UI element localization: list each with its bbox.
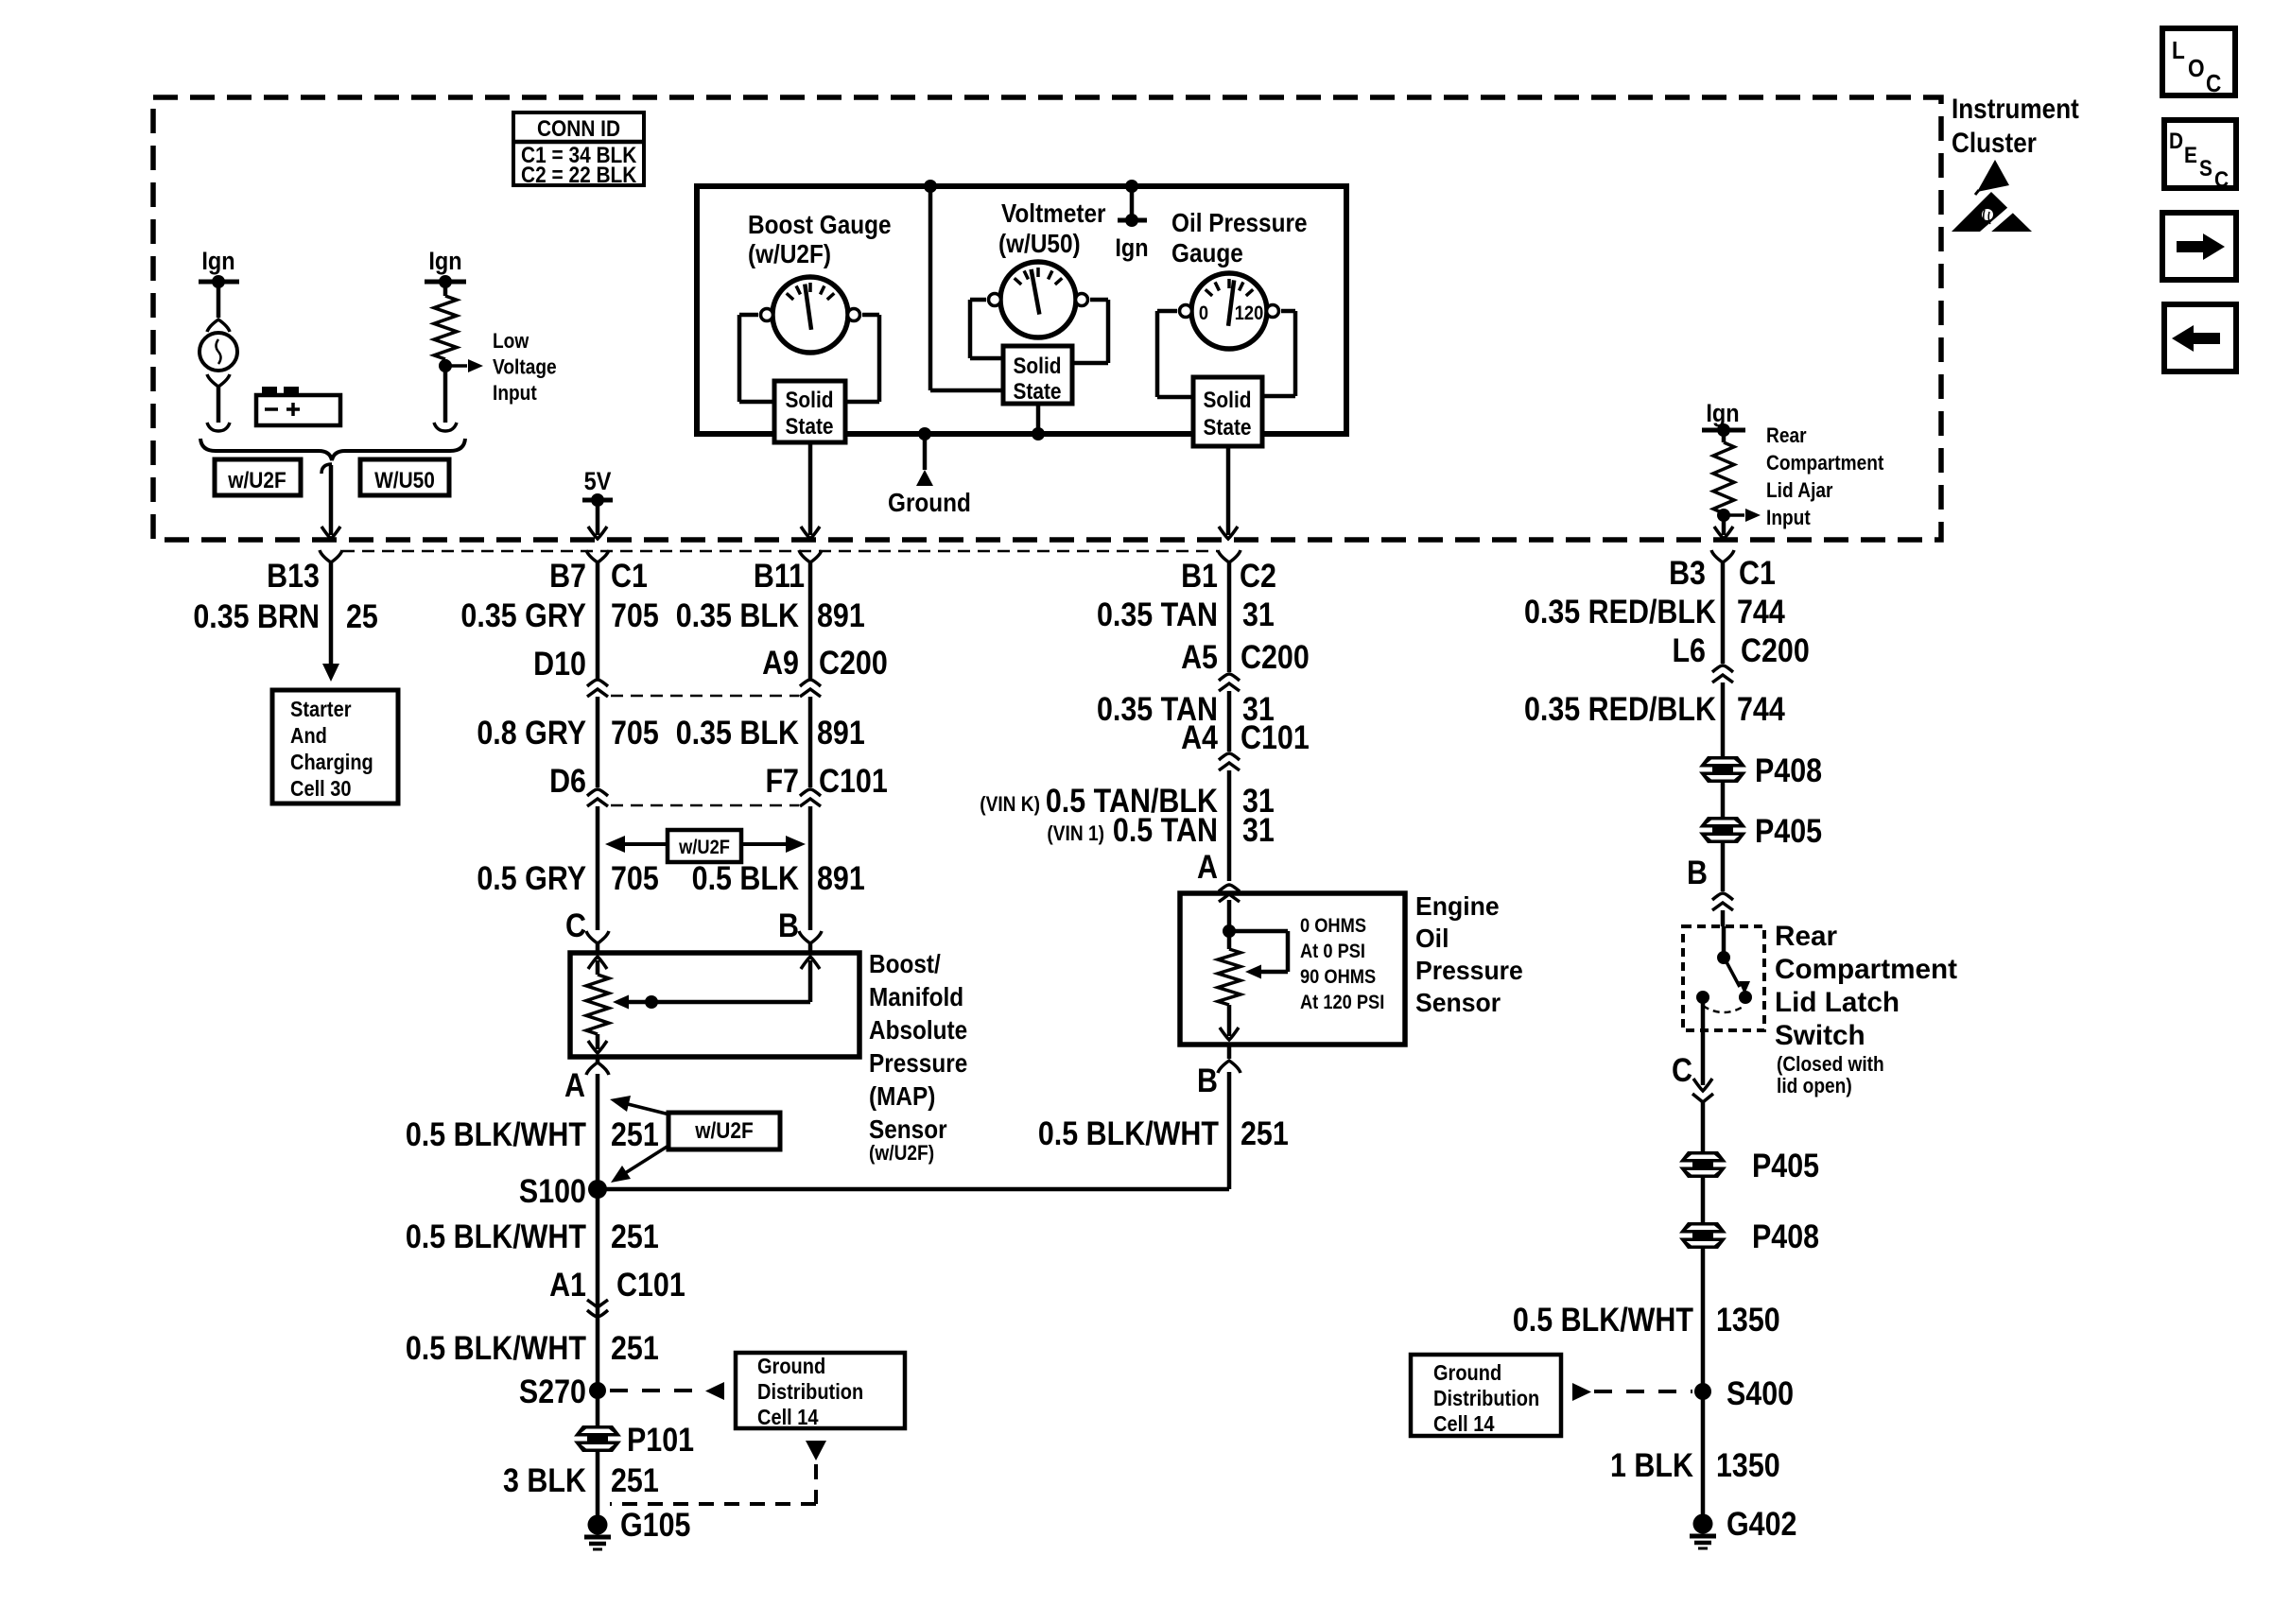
svg-text:3 BLK: 3 BLK bbox=[503, 1461, 586, 1498]
svg-text:Solid: Solid bbox=[1013, 354, 1061, 379]
svg-text:S270: S270 bbox=[519, 1373, 586, 1409]
svg-text:705: 705 bbox=[611, 714, 659, 751]
svg-text:C2 = 22 BLK: C2 = 22 BLK bbox=[521, 163, 637, 188]
svg-text:B13: B13 bbox=[267, 557, 320, 594]
svg-text:0.35 TAN: 0.35 TAN bbox=[1097, 596, 1218, 632]
svg-text:B7: B7 bbox=[549, 557, 586, 594]
svg-text:L: L bbox=[2172, 38, 2185, 65]
svg-text:Engine: Engine bbox=[1415, 890, 1500, 921]
svg-text:705: 705 bbox=[611, 596, 659, 633]
svg-text:Distribution: Distribution bbox=[1433, 1386, 1539, 1411]
svg-text:744: 744 bbox=[1737, 690, 1785, 727]
svg-text:B: B bbox=[1687, 854, 1708, 890]
svg-text:Cell 14: Cell 14 bbox=[1433, 1411, 1495, 1437]
svg-text:P101: P101 bbox=[627, 1421, 694, 1458]
svg-text:A: A bbox=[564, 1066, 585, 1103]
svg-text:Oil: Oil bbox=[1415, 923, 1449, 953]
svg-text:Compartment: Compartment bbox=[1766, 452, 1883, 475]
svg-text:(w/U2F): (w/U2F) bbox=[869, 1142, 934, 1166]
svg-text:Ign: Ign bbox=[1115, 234, 1148, 263]
svg-text:0: 0 bbox=[1199, 302, 1208, 324]
svg-text:0.35 RED/BLK: 0.35 RED/BLK bbox=[1524, 593, 1716, 630]
svg-text:C101: C101 bbox=[616, 1266, 685, 1303]
svg-text:lid open): lid open) bbox=[1777, 1075, 1852, 1098]
svg-text:Gauge: Gauge bbox=[1171, 237, 1243, 268]
svg-text:0.5 BLK/WHT: 0.5 BLK/WHT bbox=[1513, 1301, 1693, 1338]
svg-text:Ground: Ground bbox=[1433, 1360, 1501, 1386]
svg-text:705: 705 bbox=[611, 859, 659, 896]
svg-text:B: B bbox=[1197, 1062, 1218, 1098]
svg-text:5V: 5V bbox=[584, 468, 612, 496]
svg-text:S100: S100 bbox=[519, 1172, 586, 1209]
svg-text:0 OHMS: 0 OHMS bbox=[1300, 915, 1366, 937]
svg-text:C200: C200 bbox=[1741, 631, 1810, 668]
svg-text:C2: C2 bbox=[1240, 557, 1276, 594]
svg-text:Starter: Starter bbox=[290, 697, 352, 722]
svg-text:(w/U2F): (w/U2F) bbox=[748, 238, 831, 268]
svg-text:w/U2F: w/U2F bbox=[678, 837, 730, 858]
svg-text:0.5 BLK/WHT: 0.5 BLK/WHT bbox=[1038, 1114, 1219, 1151]
svg-text:Solid: Solid bbox=[1203, 388, 1251, 413]
svg-text:(Closed with: (Closed with bbox=[1777, 1053, 1884, 1077]
svg-text:0.5 BLK/WHT: 0.5 BLK/WHT bbox=[406, 1218, 586, 1254]
svg-text:Ign: Ign bbox=[428, 248, 461, 276]
svg-text:Pressure: Pressure bbox=[1415, 955, 1523, 985]
svg-text:C: C bbox=[2206, 71, 2221, 98]
svg-text:Boost Gauge: Boost Gauge bbox=[748, 209, 892, 239]
svg-text:And: And bbox=[290, 723, 327, 749]
svg-text:0.8 GRY: 0.8 GRY bbox=[477, 714, 586, 751]
svg-text:Cell 30: Cell 30 bbox=[290, 776, 352, 802]
svg-text:CONN ID: CONN ID bbox=[537, 116, 620, 142]
svg-text:A: A bbox=[1197, 848, 1218, 885]
svg-text:Compartment: Compartment bbox=[1775, 954, 1957, 985]
svg-text:(MAP): (MAP) bbox=[869, 1080, 935, 1111]
svg-text:251: 251 bbox=[611, 1461, 659, 1498]
svg-text:Input: Input bbox=[1766, 507, 1811, 530]
svg-text:Cell 14: Cell 14 bbox=[757, 1405, 819, 1430]
svg-text:Pressure: Pressure bbox=[869, 1047, 967, 1078]
svg-text:B: B bbox=[778, 907, 799, 943]
svg-text:891: 891 bbox=[817, 596, 865, 633]
svg-text:A1: A1 bbox=[549, 1266, 586, 1303]
svg-text:Lid Ajar: Lid Ajar bbox=[1766, 479, 1833, 503]
svg-text:1350: 1350 bbox=[1716, 1301, 1780, 1338]
svg-text:120: 120 bbox=[1235, 302, 1264, 324]
svg-text:Solid: Solid bbox=[785, 388, 833, 413]
svg-text:State: State bbox=[785, 414, 833, 440]
svg-text:Voltage: Voltage bbox=[493, 355, 557, 379]
svg-text:0.35 BLK: 0.35 BLK bbox=[676, 714, 800, 751]
svg-text:Instrument: Instrument bbox=[1952, 93, 2079, 124]
svg-text:Sensor: Sensor bbox=[869, 1114, 947, 1144]
svg-text:C1: C1 bbox=[611, 557, 648, 594]
svg-text:891: 891 bbox=[817, 714, 865, 751]
svg-text:0.35 BRN: 0.35 BRN bbox=[193, 597, 320, 634]
svg-text:Distribution: Distribution bbox=[757, 1379, 863, 1405]
svg-text:P405: P405 bbox=[1755, 812, 1822, 849]
svg-text:(w/U50): (w/U50) bbox=[998, 228, 1081, 258]
svg-text:S: S bbox=[2199, 156, 2212, 181]
svg-text:C1: C1 bbox=[1739, 554, 1776, 591]
svg-text:w/U2F: w/U2F bbox=[694, 1118, 753, 1144]
svg-text:Ign: Ign bbox=[1706, 400, 1739, 428]
svg-text:At 0 PSI: At 0 PSI bbox=[1300, 941, 1365, 962]
svg-text:Ground: Ground bbox=[757, 1354, 825, 1379]
svg-text:C101: C101 bbox=[819, 762, 888, 799]
svg-text:31: 31 bbox=[1242, 596, 1275, 632]
svg-text:(VIN 1): (VIN 1) bbox=[1047, 822, 1104, 846]
svg-text:1350: 1350 bbox=[1716, 1446, 1780, 1483]
svg-text:Sensor: Sensor bbox=[1415, 987, 1501, 1017]
svg-text:C200: C200 bbox=[819, 644, 888, 681]
svg-text:A4: A4 bbox=[1181, 718, 1219, 755]
svg-text:0.5 BLK: 0.5 BLK bbox=[692, 859, 800, 896]
svg-text:251: 251 bbox=[611, 1218, 659, 1254]
svg-text:C200: C200 bbox=[1241, 638, 1310, 675]
svg-text:P408: P408 bbox=[1752, 1218, 1819, 1254]
svg-text:P405: P405 bbox=[1752, 1147, 1819, 1183]
svg-text:w/U2F: w/U2F bbox=[227, 468, 286, 493]
svg-text:Absolute: Absolute bbox=[869, 1014, 967, 1045]
svg-text:744: 744 bbox=[1737, 593, 1785, 630]
svg-text:Rear: Rear bbox=[1766, 424, 1807, 448]
svg-text:251: 251 bbox=[611, 1329, 659, 1366]
svg-text:90 OHMS: 90 OHMS bbox=[1300, 966, 1376, 988]
svg-text:At 120 PSI: At 120 PSI bbox=[1300, 992, 1384, 1013]
svg-text:Rear: Rear bbox=[1775, 921, 1837, 952]
svg-text:0.35 BLK: 0.35 BLK bbox=[676, 596, 800, 633]
svg-text:Lid Latch: Lid Latch bbox=[1775, 987, 1900, 1018]
svg-text:0.35 RED/BLK: 0.35 RED/BLK bbox=[1524, 690, 1716, 727]
svg-text:Low: Low bbox=[493, 330, 529, 354]
svg-text:G105: G105 bbox=[620, 1506, 690, 1543]
svg-text:D10: D10 bbox=[533, 645, 586, 682]
svg-text:E: E bbox=[2184, 143, 2197, 168]
svg-text:(VIN K): (VIN K) bbox=[980, 793, 1040, 817]
svg-text:C: C bbox=[565, 907, 586, 943]
svg-text:0.35 GRY: 0.35 GRY bbox=[460, 596, 586, 633]
svg-text:State: State bbox=[1013, 379, 1061, 405]
svg-text:Switch: Switch bbox=[1775, 1020, 1865, 1051]
svg-text:0.5 TAN: 0.5 TAN bbox=[1113, 811, 1218, 848]
svg-text:0.5 BLK/WHT: 0.5 BLK/WHT bbox=[406, 1329, 586, 1366]
svg-text:G402: G402 bbox=[1726, 1505, 1796, 1542]
svg-text:Cluster: Cluster bbox=[1952, 127, 2037, 158]
svg-text:S400: S400 bbox=[1726, 1374, 1794, 1411]
svg-text:31: 31 bbox=[1242, 811, 1275, 848]
svg-text:L6: L6 bbox=[1672, 631, 1706, 668]
svg-text:C: C bbox=[2214, 167, 2229, 193]
svg-text:Ign: Ign bbox=[201, 248, 234, 276]
svg-text:Voltmeter: Voltmeter bbox=[1001, 198, 1106, 228]
svg-text:C101: C101 bbox=[1241, 718, 1310, 755]
svg-text:B11: B11 bbox=[754, 557, 805, 594]
svg-text:C: C bbox=[1672, 1051, 1692, 1088]
svg-text:1 BLK: 1 BLK bbox=[1610, 1446, 1693, 1483]
svg-text:0.5 GRY: 0.5 GRY bbox=[477, 859, 586, 896]
svg-text:Oil Pressure: Oil Pressure bbox=[1171, 207, 1307, 237]
svg-text:O: O bbox=[2188, 56, 2205, 83]
svg-text:Charging: Charging bbox=[290, 750, 373, 775]
svg-text:891: 891 bbox=[817, 859, 865, 896]
svg-text:Ground: Ground bbox=[888, 487, 971, 517]
svg-text:0.5 BLK/WHT: 0.5 BLK/WHT bbox=[406, 1115, 586, 1152]
svg-text:W/U50: W/U50 bbox=[374, 468, 435, 493]
svg-text:251: 251 bbox=[611, 1115, 659, 1152]
svg-text:251: 251 bbox=[1241, 1114, 1289, 1151]
svg-text:B1: B1 bbox=[1181, 557, 1218, 594]
svg-text:State: State bbox=[1203, 415, 1251, 441]
svg-text:B3: B3 bbox=[1669, 554, 1706, 591]
svg-text:F7: F7 bbox=[765, 762, 799, 799]
svg-text:Manifold: Manifold bbox=[869, 981, 963, 1011]
svg-text:D6: D6 bbox=[549, 762, 586, 799]
svg-text:P408: P408 bbox=[1755, 752, 1822, 788]
svg-text:Boost/: Boost/ bbox=[869, 948, 941, 978]
svg-text:Input: Input bbox=[493, 382, 537, 406]
svg-text:A9: A9 bbox=[762, 644, 799, 681]
svg-text:A5: A5 bbox=[1181, 638, 1218, 675]
svg-text:25: 25 bbox=[346, 597, 378, 634]
svg-text:D: D bbox=[2169, 129, 2183, 154]
